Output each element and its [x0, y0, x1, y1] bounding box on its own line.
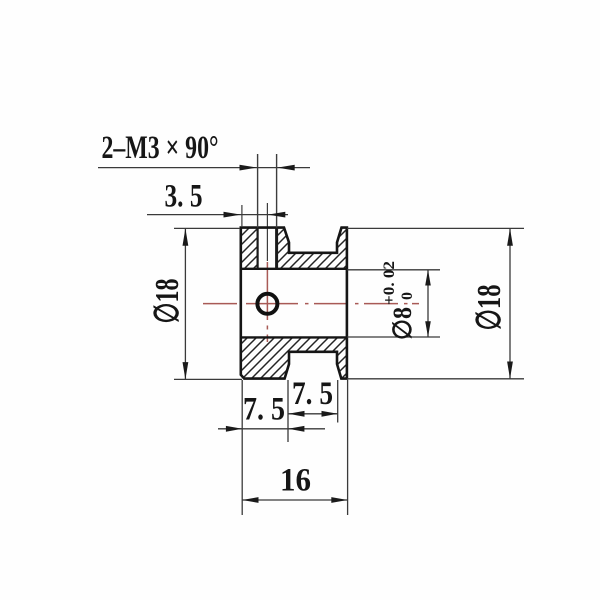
svg-text:∅8: ∅8: [388, 307, 417, 340]
red vertical centerline of M3 hole: [266, 262, 268, 342]
extension line left face bottom: [241, 380, 243, 515]
left phi18 extension bottom: [174, 378, 242, 380]
extension line right face bottom: [347, 380, 349, 515]
svg-text:2–M3 × 90°: 2–M3 × 90°: [102, 130, 219, 166]
svg-text:7. 5: 7. 5: [243, 392, 285, 428]
arrow left onto notch wall 7.5 left: [288, 426, 304, 432]
arrow up left phi18: [183, 228, 189, 245]
hatch lower band: [241, 337, 347, 378]
arrow up right phi18: [507, 228, 513, 245]
svg-text:7. 5: 7. 5: [292, 376, 333, 412]
arrow left 16: [242, 497, 258, 503]
arrow right 16: [331, 497, 347, 503]
M3 extension line right: [276, 154, 278, 228]
svg-text:+0. 02: +0. 02: [381, 261, 398, 305]
arrow down left phi18: [183, 362, 189, 379]
dimension line 3.5: [147, 214, 288, 216]
arrow right onto left face 7.5 left: [226, 426, 242, 432]
arrow right 7.5 right: [322, 411, 338, 417]
leader line 2-M3: [98, 167, 310, 169]
arrow down right phi18: [507, 362, 513, 379]
hatch upper middle and right band: [277, 228, 347, 269]
dimension line 7.5 left: [218, 428, 325, 430]
phi8 dimension line: [427, 270, 429, 337]
phi8 extension top: [347, 269, 440, 271]
arrow right at left face: [224, 212, 241, 218]
arrow up phi8: [425, 270, 431, 286]
right phi18 extension bottom: [347, 378, 524, 380]
bore top line: [241, 268, 347, 270]
phi8 extension bottom: [347, 336, 440, 338]
svg-text:3. 5: 3. 5: [165, 179, 203, 215]
dimension line 16: [242, 499, 347, 501]
M3 hole left wall: [257, 228, 259, 269]
extension line notch left wall: [287, 380, 289, 442]
arrow left 7.5 right: [288, 411, 304, 417]
arrow left at M3 right wall: [277, 165, 294, 171]
svg-text:0: 0: [399, 292, 416, 300]
right phi18 extension top: [347, 227, 524, 229]
M3 hole right wall: [275, 228, 278, 269]
dimension line 7.5 right: [288, 413, 337, 415]
extension line left face top: [241, 205, 243, 227]
arrow right at M3 left wall: [240, 165, 257, 171]
extension line notch right wall: [337, 380, 339, 423]
arrow down phi8: [425, 321, 431, 337]
arrow left at M3 center: [268, 212, 285, 218]
left phi18 extension top: [174, 227, 240, 229]
M3 extension line left: [257, 154, 259, 228]
M3 hole centerline extension (above part): [266, 203, 268, 261]
svg-text:16: 16: [280, 463, 311, 499]
right phi18 dimension line: [509, 228, 511, 378]
svg-text:∅18: ∅18: [471, 285, 508, 331]
svg-text:∅18: ∅18: [149, 279, 186, 324]
hatch upper-left flange band: [241, 228, 258, 269]
red horizontal centerline: [203, 303, 419, 305]
part outline: [241, 228, 347, 379]
bore bottom line: [241, 336, 347, 338]
set screw hole circle: [257, 294, 277, 314]
left phi18 dimension line: [184, 228, 186, 379]
label phi8 +0.02 0: [381, 261, 417, 340]
